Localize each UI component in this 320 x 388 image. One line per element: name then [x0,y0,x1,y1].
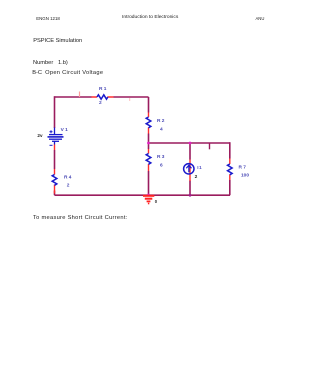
resistor R4 zigzag [52,175,57,186]
wire mid horizontal rail [149,142,231,144]
header left: course code [36,16,60,22]
wire current-source branch upper [189,143,191,160]
wire middle branch below R3 to ground [148,171,150,195]
heading Number 1.b) [33,60,68,66]
wire left vertical (V1 to R4) [54,150,56,169]
wire left bottom corner [54,191,56,196]
wire bottom rail [55,194,231,196]
pin stubs red of I1 (pass behind circle) [189,160,191,182]
junction dot at ground node [147,194,150,197]
pin stubs red of R3 [148,149,150,171]
voltage source V1 battery symbol [48,128,64,146]
svg-text:R 3: R 3 [157,154,165,160]
resistor R1 zigzag (horizontal) [97,95,108,99]
pin stubs red of R4 [54,169,56,194]
svg-text:V 1: V 1 [61,127,69,133]
wire right branch upper [229,142,231,158]
svg-text:R 4: R 4 [64,175,72,181]
svg-text:I1: I1 [197,165,202,170]
junction dot at R2/R3 node [147,142,150,145]
wire stub hanging below mid rail [209,143,211,149]
heading PSPICE Simulation [33,38,82,44]
pin stub red below V1 [54,145,56,151]
pin stubs red of R2 [148,113,150,134]
current source I1 circle [184,164,194,174]
junction dot at I1 top [189,142,192,145]
wire right branch lower [229,180,231,195]
svg-text:R 7: R 7 [239,165,247,171]
header center: title [122,15,178,21]
svg-text:100: 100 [241,173,249,179]
heading B-C Open Circuit Voltage [32,70,103,76]
wire left vertical (top part to V1) [54,96,56,128]
wire current-source branch lower [189,181,191,196]
svg-text:4: 4 [160,127,163,133]
faint pink tick below top wire [129,98,131,101]
wire middle branch upper [148,97,150,113]
svg-text:2: 2 [99,100,102,106]
resistor R3 zigzag [146,154,151,165]
svg-text:2: 2 [67,183,70,189]
svg-text:R 2: R 2 [157,118,165,124]
header right: ANU [256,16,265,22]
ground symbol (0 node) [143,196,154,204]
wire middle branch between R2 and junction [148,134,150,150]
pin stubs red of R7 [229,159,231,181]
svg-text:6: 6 [160,163,163,169]
resistor R2 zigzag [146,117,151,128]
current source I1 arrow [188,166,190,172]
svg-text:R 1: R 1 [99,86,107,92]
svg-text:2: 2 [195,174,198,180]
junction dot at I1 bottom [189,194,192,197]
svg-text:0: 0 [155,199,158,204]
faint pink tick above top wire [79,92,81,98]
svg-text:2v: 2v [37,133,43,138]
wire top of left loop [55,96,149,98]
footer text: To measure Short Circuit Current [33,215,128,221]
resistor R7 zigzag [228,164,233,175]
pin stubs (red) of R1 [92,96,114,98]
